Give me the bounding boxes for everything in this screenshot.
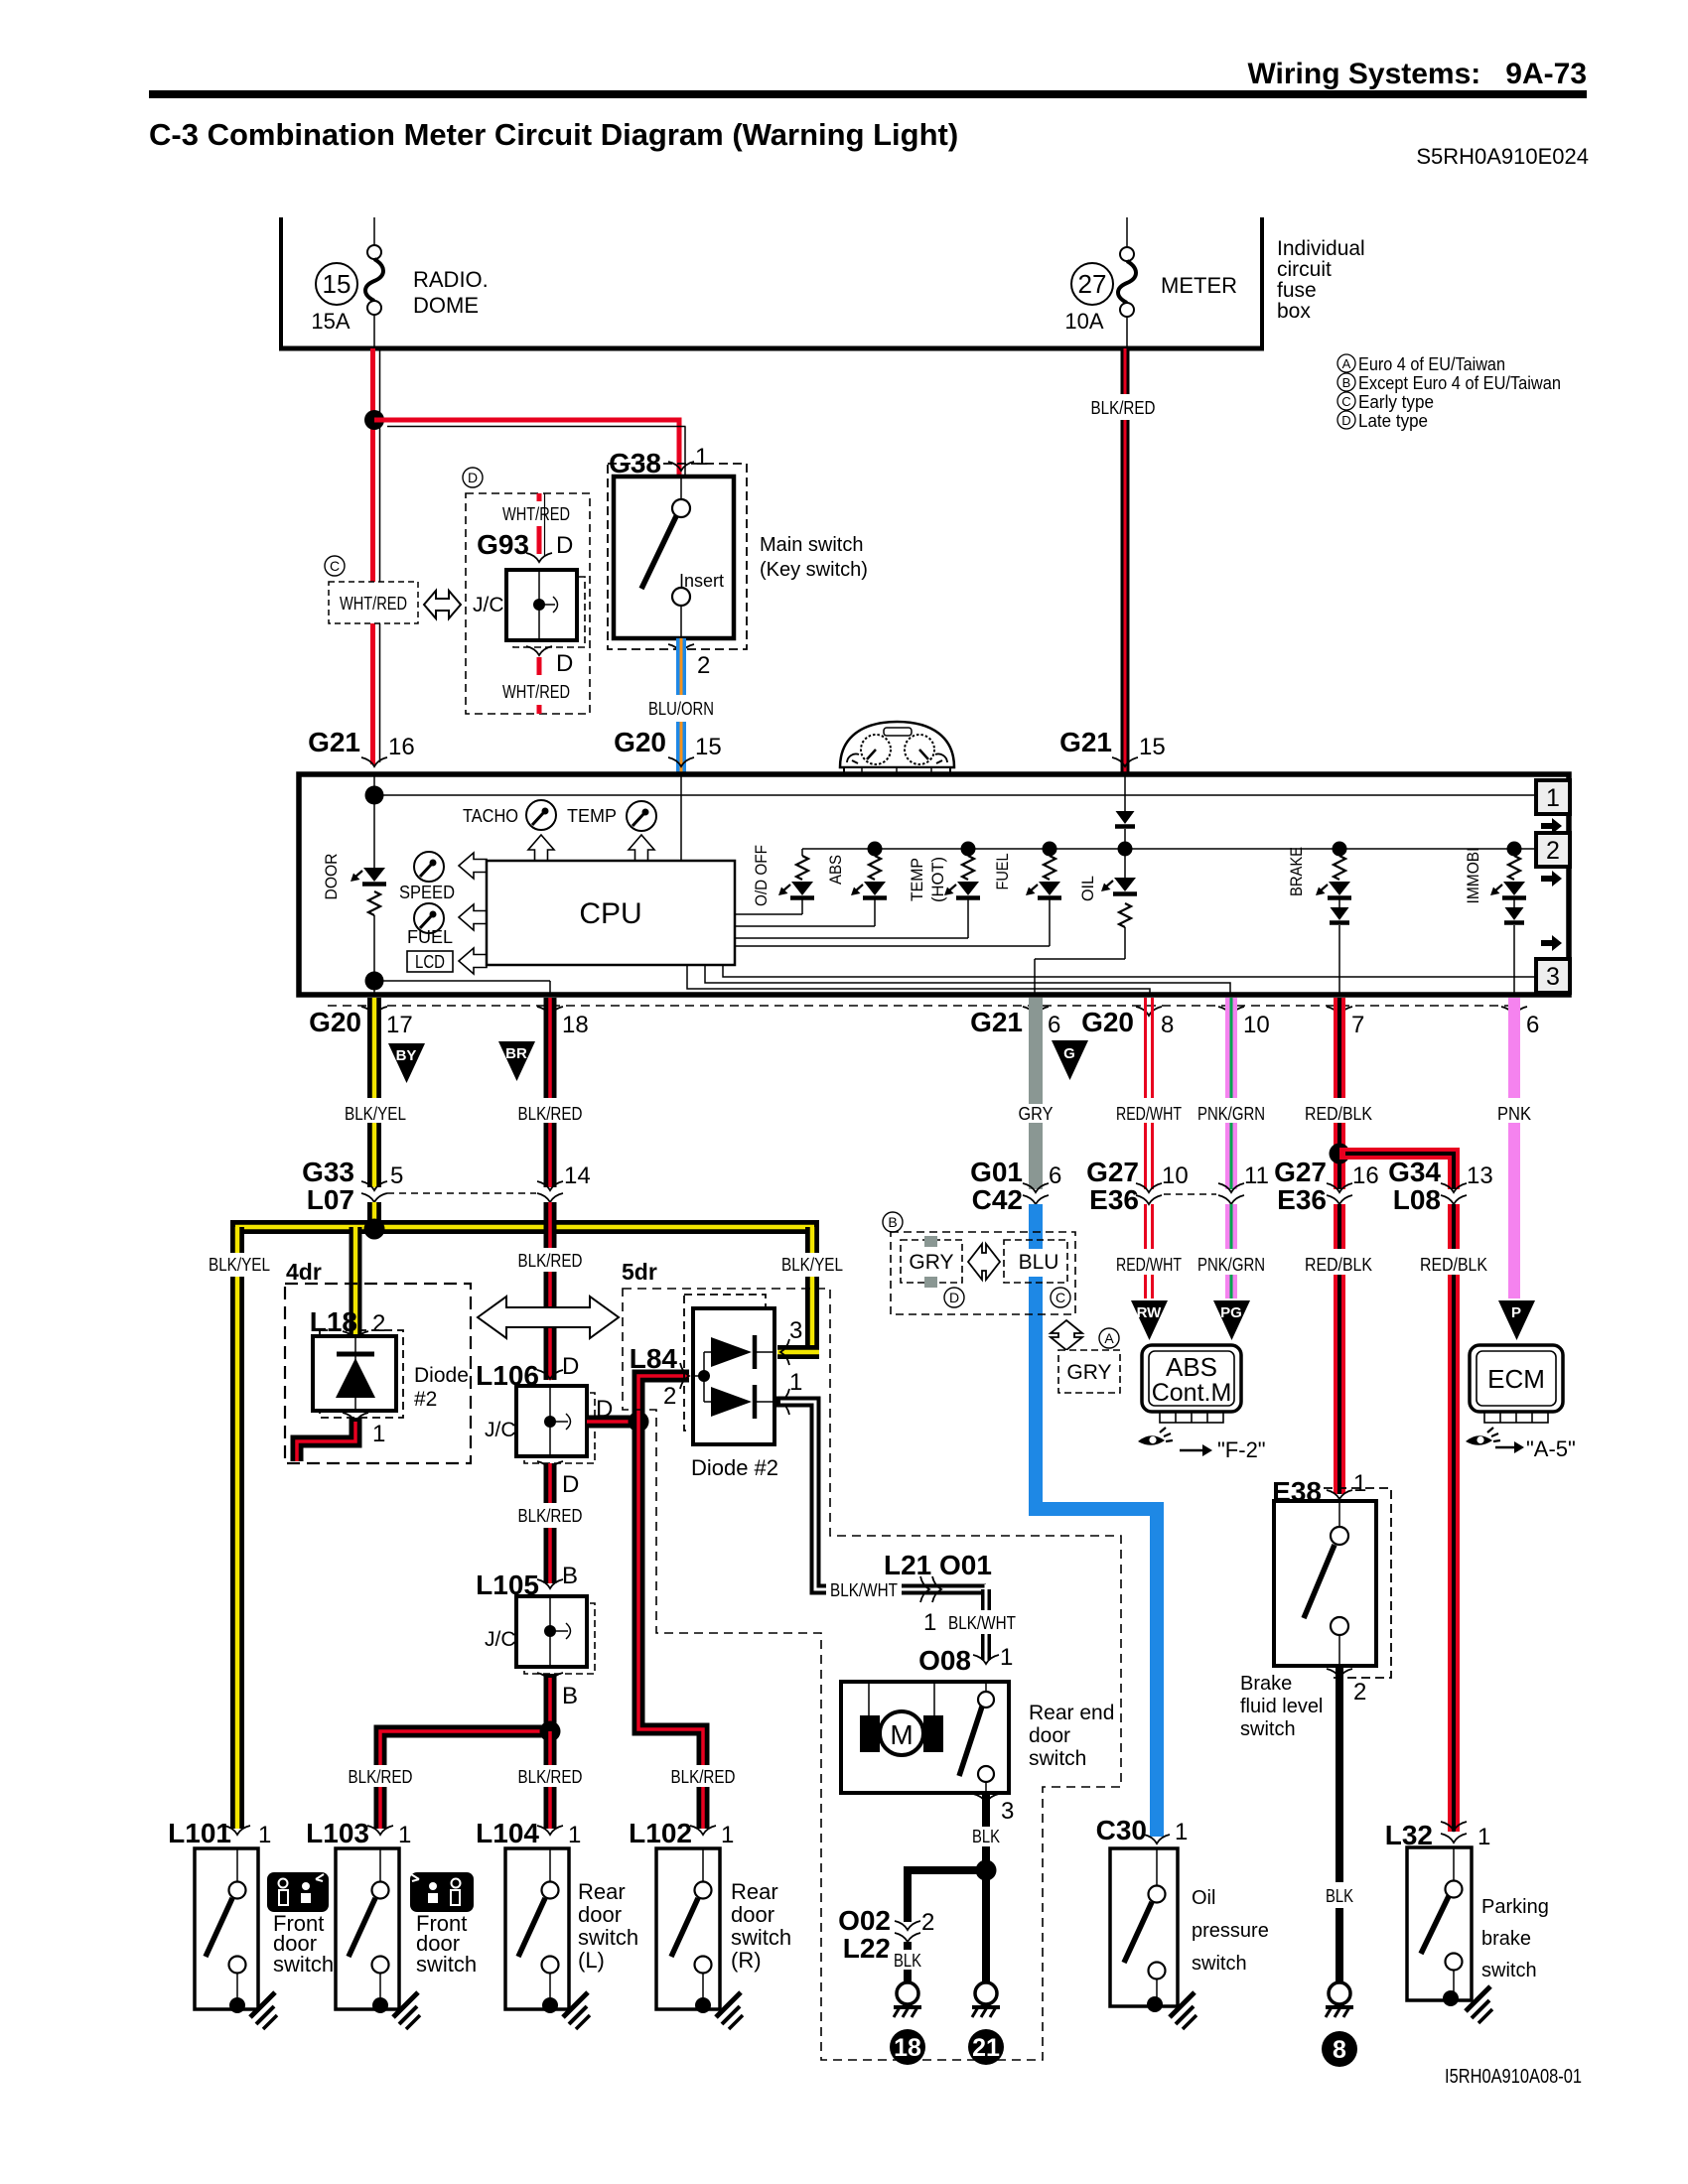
title bbox=[149, 117, 958, 152]
svg-text:FUEL: FUEL bbox=[407, 927, 453, 947]
svg-text:2: 2 bbox=[663, 1383, 676, 1410]
svg-text:16: 16 bbox=[1352, 1162, 1379, 1189]
meter pin 8 bbox=[1081, 1007, 1174, 1038]
svg-text:4dr: 4dr bbox=[286, 1259, 322, 1285]
L106 J/C box bbox=[516, 1386, 595, 1463]
L105 bottom pin B bbox=[537, 1673, 578, 1709]
TEMP gauge bbox=[567, 801, 656, 831]
svg-text:1: 1 bbox=[1353, 1470, 1366, 1497]
connector 1 arrow bbox=[1541, 818, 1562, 834]
svg-text:B: B bbox=[562, 1563, 578, 1589]
svg-text:8: 8 bbox=[1333, 2036, 1346, 2064]
main switch G38 box bbox=[614, 477, 734, 638]
svg-text:21: 21 bbox=[972, 2034, 1000, 2062]
svg-text:#2: #2 bbox=[414, 1388, 437, 1411]
svg-text:J/C: J/C bbox=[485, 1419, 516, 1441]
svg-text:switch: switch bbox=[1192, 1953, 1247, 1975]
svg-text:"F-2": "F-2" bbox=[1217, 1437, 1266, 1462]
svg-text:WHT/RED: WHT/RED bbox=[502, 682, 570, 702]
wire BLK/YEL branch to L18 bbox=[350, 1227, 362, 1334]
svg-text:E36: E36 bbox=[1277, 1184, 1327, 1215]
wire BLK to O02/L22 bbox=[908, 1870, 986, 1922]
svg-text:O/D OFF: O/D OFF bbox=[752, 845, 771, 906]
svg-text:BLK/YEL: BLK/YEL bbox=[209, 1255, 270, 1275]
A-5 reference bbox=[1526, 1436, 1576, 1461]
fuse box right edge bbox=[1260, 217, 1264, 348]
brake fluid level switch caption bbox=[1240, 1673, 1323, 1740]
svg-text:D: D bbox=[1341, 413, 1350, 428]
svg-text:switch: switch bbox=[1240, 1718, 1296, 1740]
ABS control module bbox=[1142, 1345, 1241, 1423]
svg-text:BLK/RED: BLK/RED bbox=[349, 1767, 413, 1787]
hollow arrow CPU to TEMP bbox=[629, 835, 654, 861]
svg-text:BLK/WHT: BLK/WHT bbox=[830, 1580, 898, 1600]
front door switch L103 bbox=[336, 1848, 399, 2013]
LCD box bbox=[407, 951, 453, 972]
svg-text:Except Euro 4 of EU/Taiwan: Except Euro 4 of EU/Taiwan bbox=[1358, 373, 1561, 393]
fuse 27 symbol bbox=[1118, 217, 1136, 348]
G38 pin 1 number bbox=[695, 444, 708, 471]
svg-text:box: box bbox=[1277, 300, 1311, 323]
legend note D bbox=[1337, 411, 1428, 431]
svg-text:Rear end: Rear end bbox=[1029, 1702, 1114, 1724]
wire node to pin 17 bbox=[373, 981, 375, 995]
svg-text:18: 18 bbox=[562, 1012, 589, 1038]
svg-text:G93: G93 bbox=[477, 529, 529, 560]
wire BLK/RED L106 to L105 bbox=[544, 1463, 557, 1583]
G38 pin 2 number bbox=[697, 652, 710, 679]
svg-text:B: B bbox=[562, 1683, 578, 1709]
legend note B bbox=[1337, 373, 1561, 393]
PNK/GRN color label bbox=[1197, 1104, 1265, 1124]
svg-text:BLK/WHT: BLK/WHT bbox=[948, 1613, 1016, 1633]
svg-text:GRY: GRY bbox=[909, 1251, 953, 1274]
L84 connector name bbox=[630, 1343, 678, 1374]
hollow arrow CPU to LCD bbox=[459, 948, 487, 974]
RED/BLK label to L32 bbox=[1420, 1255, 1487, 1275]
svg-text:2: 2 bbox=[1353, 1679, 1366, 1706]
svg-text:5dr: 5dr bbox=[622, 1259, 657, 1285]
L102 connector label bbox=[629, 1818, 734, 1848]
svg-text:DOOR: DOOR bbox=[322, 854, 341, 900]
parking brake switch caption bbox=[1481, 1896, 1549, 1981]
BLK/YEL label right leg bbox=[781, 1255, 843, 1275]
connector 2 arrow bbox=[1541, 871, 1562, 887]
node on rail 1 bbox=[365, 786, 384, 805]
G34/L08 connector pin13 bbox=[1388, 1157, 1493, 1215]
ground bus junction node bbox=[976, 1860, 997, 1881]
svg-text:Rear: Rear bbox=[731, 1879, 778, 1904]
svg-text:G21: G21 bbox=[308, 727, 360, 757]
svg-text:RW: RW bbox=[1137, 1304, 1163, 1321]
CPU routing line to pin 8 bbox=[687, 965, 1150, 995]
RED/WHT color label bbox=[1116, 1104, 1182, 1124]
oil pressure switch C30 bbox=[1110, 1848, 1178, 2012]
motor leads bbox=[869, 1682, 934, 1719]
BLK label ground 18 bbox=[888, 1950, 927, 1971]
wire BLK E38 to ground 8 bbox=[1336, 1666, 1343, 1981]
BRAKE label bbox=[1287, 847, 1306, 896]
O02/L22 connector names bbox=[838, 1905, 891, 1964]
G27/E36 connector pin16 bbox=[1274, 1157, 1379, 1215]
E38 dashed enclosure bbox=[1324, 1488, 1391, 1678]
svg-text:27: 27 bbox=[1078, 269, 1107, 299]
svg-text:B: B bbox=[1342, 375, 1351, 390]
wire BLK O02 to ground 18 bbox=[904, 1942, 912, 1981]
O02/L22 pin 2 chevrons bbox=[895, 1909, 934, 1942]
svg-text:BLK/YEL: BLK/YEL bbox=[781, 1255, 843, 1275]
junction node on RED/BLK bbox=[1330, 1144, 1350, 1164]
svg-text:M: M bbox=[890, 1719, 913, 1750]
svg-text:switch: switch bbox=[578, 1925, 638, 1950]
fuse box bottom edge bbox=[279, 346, 1264, 351]
svg-text:switch: switch bbox=[416, 1952, 477, 1977]
svg-text:D: D bbox=[556, 532, 573, 559]
svg-text:3: 3 bbox=[1546, 963, 1560, 991]
svg-text:J/C: J/C bbox=[485, 1628, 516, 1651]
G93 pin D label bottom bbox=[556, 650, 573, 677]
note B marker bbox=[883, 1212, 903, 1232]
G20 pin 15 label bbox=[614, 727, 722, 766]
CPU box bbox=[487, 861, 735, 965]
BLK/RED color label top bbox=[1091, 398, 1156, 418]
svg-text:door: door bbox=[731, 1902, 774, 1927]
legend note C bbox=[1337, 392, 1434, 412]
svg-text:L08: L08 bbox=[1393, 1184, 1441, 1215]
DOOR lamp branch bbox=[351, 795, 386, 981]
lower BLK/RED bus to L103 bbox=[380, 1731, 557, 1829]
BLK label bbox=[1326, 1886, 1353, 1906]
svg-text:C: C bbox=[1341, 394, 1350, 409]
svg-text:C: C bbox=[1055, 1290, 1065, 1305]
svg-text:Individual: Individual bbox=[1277, 237, 1365, 260]
ABS label bbox=[826, 855, 845, 885]
BLK/RED label above L102 bbox=[667, 1765, 740, 1787]
svg-text:1: 1 bbox=[695, 444, 708, 471]
note D marker in B-box bbox=[944, 1288, 964, 1307]
svg-text:TACHO: TACHO bbox=[463, 806, 518, 826]
OIL warning lamp bbox=[1035, 842, 1137, 996]
SPEED gauge bbox=[399, 852, 455, 902]
G93 pin D label top bbox=[556, 532, 573, 559]
motor M bbox=[860, 1711, 943, 1755]
meter connector dashed line bbox=[328, 1005, 1514, 1007]
svg-text:switch: switch bbox=[1481, 1960, 1537, 1981]
wire BLK to ground 21 bbox=[982, 1870, 990, 1981]
svg-text:15A: 15A bbox=[311, 309, 350, 334]
PG destination badge bbox=[1213, 1300, 1250, 1340]
parking brake switch L32 bbox=[1407, 1847, 1472, 2006]
internal supply rail 2 bbox=[802, 848, 1536, 850]
svg-text:switch: switch bbox=[731, 1925, 791, 1950]
L104 ground bbox=[563, 1992, 590, 2029]
svg-text:switch: switch bbox=[273, 1952, 334, 1977]
wire WHT/RED into G93 bbox=[539, 493, 545, 556]
PNK color label bbox=[1497, 1104, 1531, 1124]
svg-text:3: 3 bbox=[1001, 1798, 1014, 1825]
svg-text:GRY: GRY bbox=[1066, 1361, 1111, 1384]
IMMOBI label bbox=[1464, 848, 1482, 904]
TACHO gauge bbox=[463, 800, 556, 830]
wire BLK/YEL bus left leg to L101 bbox=[230, 1227, 244, 1829]
svg-text:BRAKE: BRAKE bbox=[1287, 847, 1306, 896]
ground badge 21 bbox=[968, 2029, 1004, 2065]
svg-text:PG: PG bbox=[1220, 1304, 1242, 1321]
G01/C42 connector bbox=[970, 1157, 1061, 1215]
svg-text:RADIO.: RADIO. bbox=[413, 267, 489, 292]
note A marker bbox=[1099, 1328, 1119, 1348]
lower bus junction node bbox=[540, 1721, 561, 1742]
vertical equivalence arrow (A) bbox=[1051, 1320, 1082, 1350]
fuse box left edge bbox=[279, 217, 283, 348]
note C marker in B-box bbox=[1051, 1288, 1070, 1307]
RED/BLK color label bbox=[1305, 1104, 1372, 1124]
fuse 27 name METER bbox=[1161, 273, 1237, 298]
svg-text:D: D bbox=[562, 1353, 579, 1380]
RED/WHT label lower bbox=[1116, 1255, 1182, 1275]
svg-text:L21 O01: L21 O01 bbox=[884, 1550, 992, 1580]
svg-text:RED/BLK: RED/BLK bbox=[1305, 1104, 1372, 1124]
svg-text:1: 1 bbox=[1175, 1819, 1188, 1845]
O01 pin 1 and BLK/WHT label bbox=[923, 1609, 1022, 1636]
wire BLK/RED to L104 bbox=[544, 1731, 557, 1829]
L102 ground bbox=[716, 1992, 743, 2029]
RW destination badge bbox=[1131, 1300, 1168, 1340]
G33/L07 dashed mating line bbox=[387, 1192, 536, 1194]
G93 connector name bbox=[477, 529, 529, 560]
svg-text:Euro 4 of EU/Taiwan: Euro 4 of EU/Taiwan bbox=[1358, 354, 1505, 374]
wire WHT/RED from fuse 15 (red stripe) bbox=[373, 348, 380, 764]
svg-text:G20: G20 bbox=[1081, 1007, 1134, 1037]
G93 dashed enclosure (late type) bbox=[466, 493, 590, 714]
B-box equivalence arrow bbox=[968, 1244, 1000, 1280]
brake fluid level switch E38 bbox=[1274, 1501, 1376, 1666]
svg-text:2: 2 bbox=[921, 1909, 934, 1936]
svg-text:ABS: ABS bbox=[826, 855, 845, 885]
svg-text:O02: O02 bbox=[838, 1905, 891, 1936]
IMMOBI warning lamp bbox=[1490, 842, 1526, 996]
4dr dashed enclosure bbox=[285, 1284, 471, 1463]
BLK/RED color label bbox=[518, 1104, 583, 1124]
wire BLU/ORN G38 to meter bbox=[676, 638, 686, 774]
note D marker above G93 box bbox=[463, 468, 483, 487]
L105 J/C label bbox=[485, 1628, 516, 1651]
svg-text:14: 14 bbox=[564, 1162, 591, 1189]
CPU routing line to pin 10 bbox=[705, 965, 1230, 995]
rear door switch L caption bbox=[578, 1879, 638, 1973]
svg-text:fuse: fuse bbox=[1277, 279, 1317, 302]
svg-text:(L): (L) bbox=[578, 1948, 605, 1973]
svg-text:10A: 10A bbox=[1064, 309, 1103, 334]
svg-text:D: D bbox=[468, 470, 478, 485]
wire BLK/RED L106 to node bbox=[587, 1416, 644, 1429]
svg-text:8: 8 bbox=[1161, 1012, 1174, 1038]
L104 connector label bbox=[476, 1818, 581, 1848]
fuse 15 name RADIO. DOME bbox=[413, 267, 489, 318]
svg-text:Parking: Parking bbox=[1481, 1896, 1549, 1918]
fuse 15 symbol bbox=[365, 217, 383, 348]
ABS warning lamp bbox=[735, 842, 887, 927]
svg-text:(Key switch): (Key switch) bbox=[760, 559, 868, 581]
G38 pin 2 chevron bbox=[668, 644, 694, 653]
ground point 18 bbox=[894, 1982, 921, 2017]
svg-text:switch: switch bbox=[1029, 1747, 1086, 1770]
OIL label bbox=[1078, 876, 1097, 901]
svg-text:door: door bbox=[578, 1902, 622, 1927]
ECM module bbox=[1470, 1345, 1563, 1423]
GRY color label bbox=[1019, 1104, 1054, 1124]
front door switch caption 2 bbox=[416, 1911, 477, 1977]
G27/E36 dashed mating line bbox=[1164, 1193, 1216, 1195]
C30 ground bbox=[1170, 1992, 1196, 2029]
rear end door switch caption bbox=[1029, 1702, 1114, 1770]
svg-text:CPU: CPU bbox=[579, 897, 641, 930]
svg-text:GRY: GRY bbox=[1019, 1104, 1054, 1124]
combination meter box bbox=[299, 774, 1569, 995]
svg-text:fluid level: fluid level bbox=[1240, 1696, 1323, 1717]
wire RED/BLK branch to G34 bbox=[1339, 1154, 1454, 1189]
5dr dashed enclosure bbox=[623, 1289, 1121, 2060]
meter feed diode from pin 15 bbox=[1115, 774, 1135, 849]
G27/E36 connector pin10 bbox=[1086, 1157, 1189, 1215]
svg-text:TEMP: TEMP bbox=[908, 858, 926, 901]
O/D OFF label bbox=[752, 845, 771, 906]
svg-text:Main switch: Main switch bbox=[760, 534, 863, 556]
fuse 15 circled number bbox=[316, 263, 357, 305]
meter pin 10 bbox=[1218, 1007, 1270, 1038]
PNK/GRN label lower bbox=[1197, 1255, 1265, 1275]
door ajar icon 2 bbox=[410, 1872, 474, 1912]
BLK label below O08 bbox=[972, 1827, 1000, 1846]
wire PNK/GRN pin10 to connector bbox=[1225, 998, 1237, 1189]
svg-text:door: door bbox=[1029, 1724, 1070, 1747]
svg-text:brake: brake bbox=[1481, 1928, 1531, 1950]
svg-text:1: 1 bbox=[1000, 1644, 1013, 1671]
wire BLK/WHT from L84 pin 1 bbox=[774, 1402, 986, 1589]
wire BLK/RED L105 to lower bus bbox=[544, 1674, 557, 1733]
svg-text:1: 1 bbox=[398, 1822, 411, 1848]
wire BLK/RED from fuse 27 bbox=[1121, 348, 1130, 774]
GRY alternative box (A) bbox=[1058, 1350, 1120, 1393]
L32 ground bbox=[1466, 1986, 1492, 2023]
svg-text:Diode #2: Diode #2 bbox=[691, 1455, 778, 1480]
G93 lower WHT/RED label and wire bbox=[502, 657, 570, 714]
svg-text:2: 2 bbox=[372, 1310, 385, 1337]
G33/L07 pin 14 bbox=[537, 1162, 591, 1202]
wire node to pin 18 bbox=[374, 981, 550, 995]
BLK/RED label above L103 bbox=[345, 1765, 417, 1787]
svg-text:"A-5": "A-5" bbox=[1526, 1436, 1576, 1461]
main switch caption bbox=[760, 534, 868, 581]
fuse 27 circled number bbox=[1071, 263, 1113, 305]
L84 caption Diode #2 bbox=[691, 1455, 778, 1480]
fuse 27 rating 10A bbox=[1064, 309, 1103, 334]
svg-text:L101: L101 bbox=[168, 1818, 231, 1848]
svg-text:A: A bbox=[1342, 356, 1351, 371]
node joining pins 17/18 bbox=[365, 972, 384, 991]
O08 pin 3 bbox=[973, 1794, 1014, 1825]
svg-text:15: 15 bbox=[1139, 734, 1166, 760]
G destination badge bbox=[1052, 1040, 1088, 1080]
svg-text:1: 1 bbox=[923, 1609, 936, 1636]
svg-text:6: 6 bbox=[1526, 1012, 1539, 1038]
svg-text:RED/WHT: RED/WHT bbox=[1116, 1104, 1182, 1124]
connector pin 11 bbox=[1218, 1162, 1269, 1204]
rear door switch L bbox=[505, 1848, 569, 2013]
svg-text:15: 15 bbox=[323, 269, 352, 299]
svg-text:G: G bbox=[1063, 1045, 1075, 1062]
FUEL warning label bbox=[993, 854, 1012, 890]
svg-text:ABS: ABS bbox=[1166, 1352, 1217, 1382]
O08 connector label bbox=[918, 1644, 1013, 1676]
svg-text:L84: L84 bbox=[630, 1343, 678, 1374]
svg-text:BLK/RED: BLK/RED bbox=[518, 1104, 583, 1124]
BLK/YEL color label bbox=[345, 1104, 406, 1124]
svg-text:Late type: Late type bbox=[1358, 411, 1428, 431]
GRY alternative box bbox=[901, 1236, 962, 1288]
wire BLK/YEL bus below G33 bbox=[367, 1202, 381, 1234]
svg-text:D: D bbox=[949, 1290, 959, 1305]
E38 connector label bbox=[1272, 1470, 1366, 1507]
G93 top pin chevron bbox=[526, 553, 552, 562]
WHT/RED color label box (early type) bbox=[329, 582, 418, 623]
rear door switch R caption bbox=[731, 1879, 791, 1973]
svg-text:1: 1 bbox=[372, 1421, 385, 1447]
wire RED/WHT pin8 to G27 bbox=[1146, 998, 1153, 1189]
svg-text:1: 1 bbox=[789, 1369, 802, 1396]
wire BLK/WHT down to O08 bbox=[981, 1584, 991, 1660]
svg-text:10: 10 bbox=[1162, 1162, 1189, 1189]
svg-text:Oil: Oil bbox=[1192, 1887, 1215, 1909]
svg-text:G34: G34 bbox=[1388, 1157, 1441, 1187]
wire BLK/RED G33 to L106 bbox=[544, 1202, 557, 1380]
svg-text:1: 1 bbox=[721, 1822, 734, 1848]
4dr caption bbox=[286, 1259, 322, 1285]
BLK/RED label mid bbox=[518, 1251, 583, 1271]
svg-text:1: 1 bbox=[1546, 784, 1560, 812]
G21 pin 15 label bbox=[1059, 727, 1166, 766]
svg-text:1: 1 bbox=[1477, 1824, 1490, 1850]
wire BLU G01 to C30 bbox=[1029, 1204, 1164, 1837]
svg-text:BLK: BLK bbox=[894, 1951, 921, 1971]
diode #2 L84 box bbox=[684, 1295, 774, 1444]
svg-text:BLU: BLU bbox=[1019, 1251, 1059, 1274]
svg-text:S5RH0A910E024: S5RH0A910E024 bbox=[1416, 144, 1589, 169]
C30 connector label bbox=[1096, 1815, 1189, 1845]
meter pin 17 bbox=[309, 1007, 413, 1038]
wire RED/BLK to L32 bbox=[1448, 1204, 1460, 1832]
wire RED/WHT to RW badge bbox=[1146, 1204, 1153, 1298]
BRAKE warning lamp bbox=[1316, 842, 1351, 996]
svg-text:TEMP: TEMP bbox=[567, 806, 617, 826]
svg-text:Cont.M: Cont.M bbox=[1152, 1379, 1232, 1407]
svg-text:L22: L22 bbox=[843, 1933, 891, 1964]
svg-text:RED/BLK: RED/BLK bbox=[1420, 1255, 1487, 1275]
connector 3 arrow bbox=[1541, 935, 1562, 951]
svg-text:16: 16 bbox=[388, 734, 415, 760]
meter pin 18 bbox=[537, 1007, 589, 1038]
ABS module view eye icon bbox=[1138, 1428, 1173, 1445]
svg-text:G01: G01 bbox=[970, 1157, 1023, 1187]
BLU/ORN color label bbox=[648, 699, 714, 719]
svg-text:2: 2 bbox=[1546, 837, 1560, 865]
junction node on WHT/RED bbox=[364, 410, 384, 430]
svg-text:(R): (R) bbox=[731, 1948, 762, 1973]
L101 ground bbox=[250, 1992, 277, 2029]
svg-text:BLK/RED: BLK/RED bbox=[518, 1767, 583, 1787]
TEMP (HOT) label bbox=[908, 857, 947, 902]
svg-text:Brake: Brake bbox=[1240, 1673, 1292, 1695]
